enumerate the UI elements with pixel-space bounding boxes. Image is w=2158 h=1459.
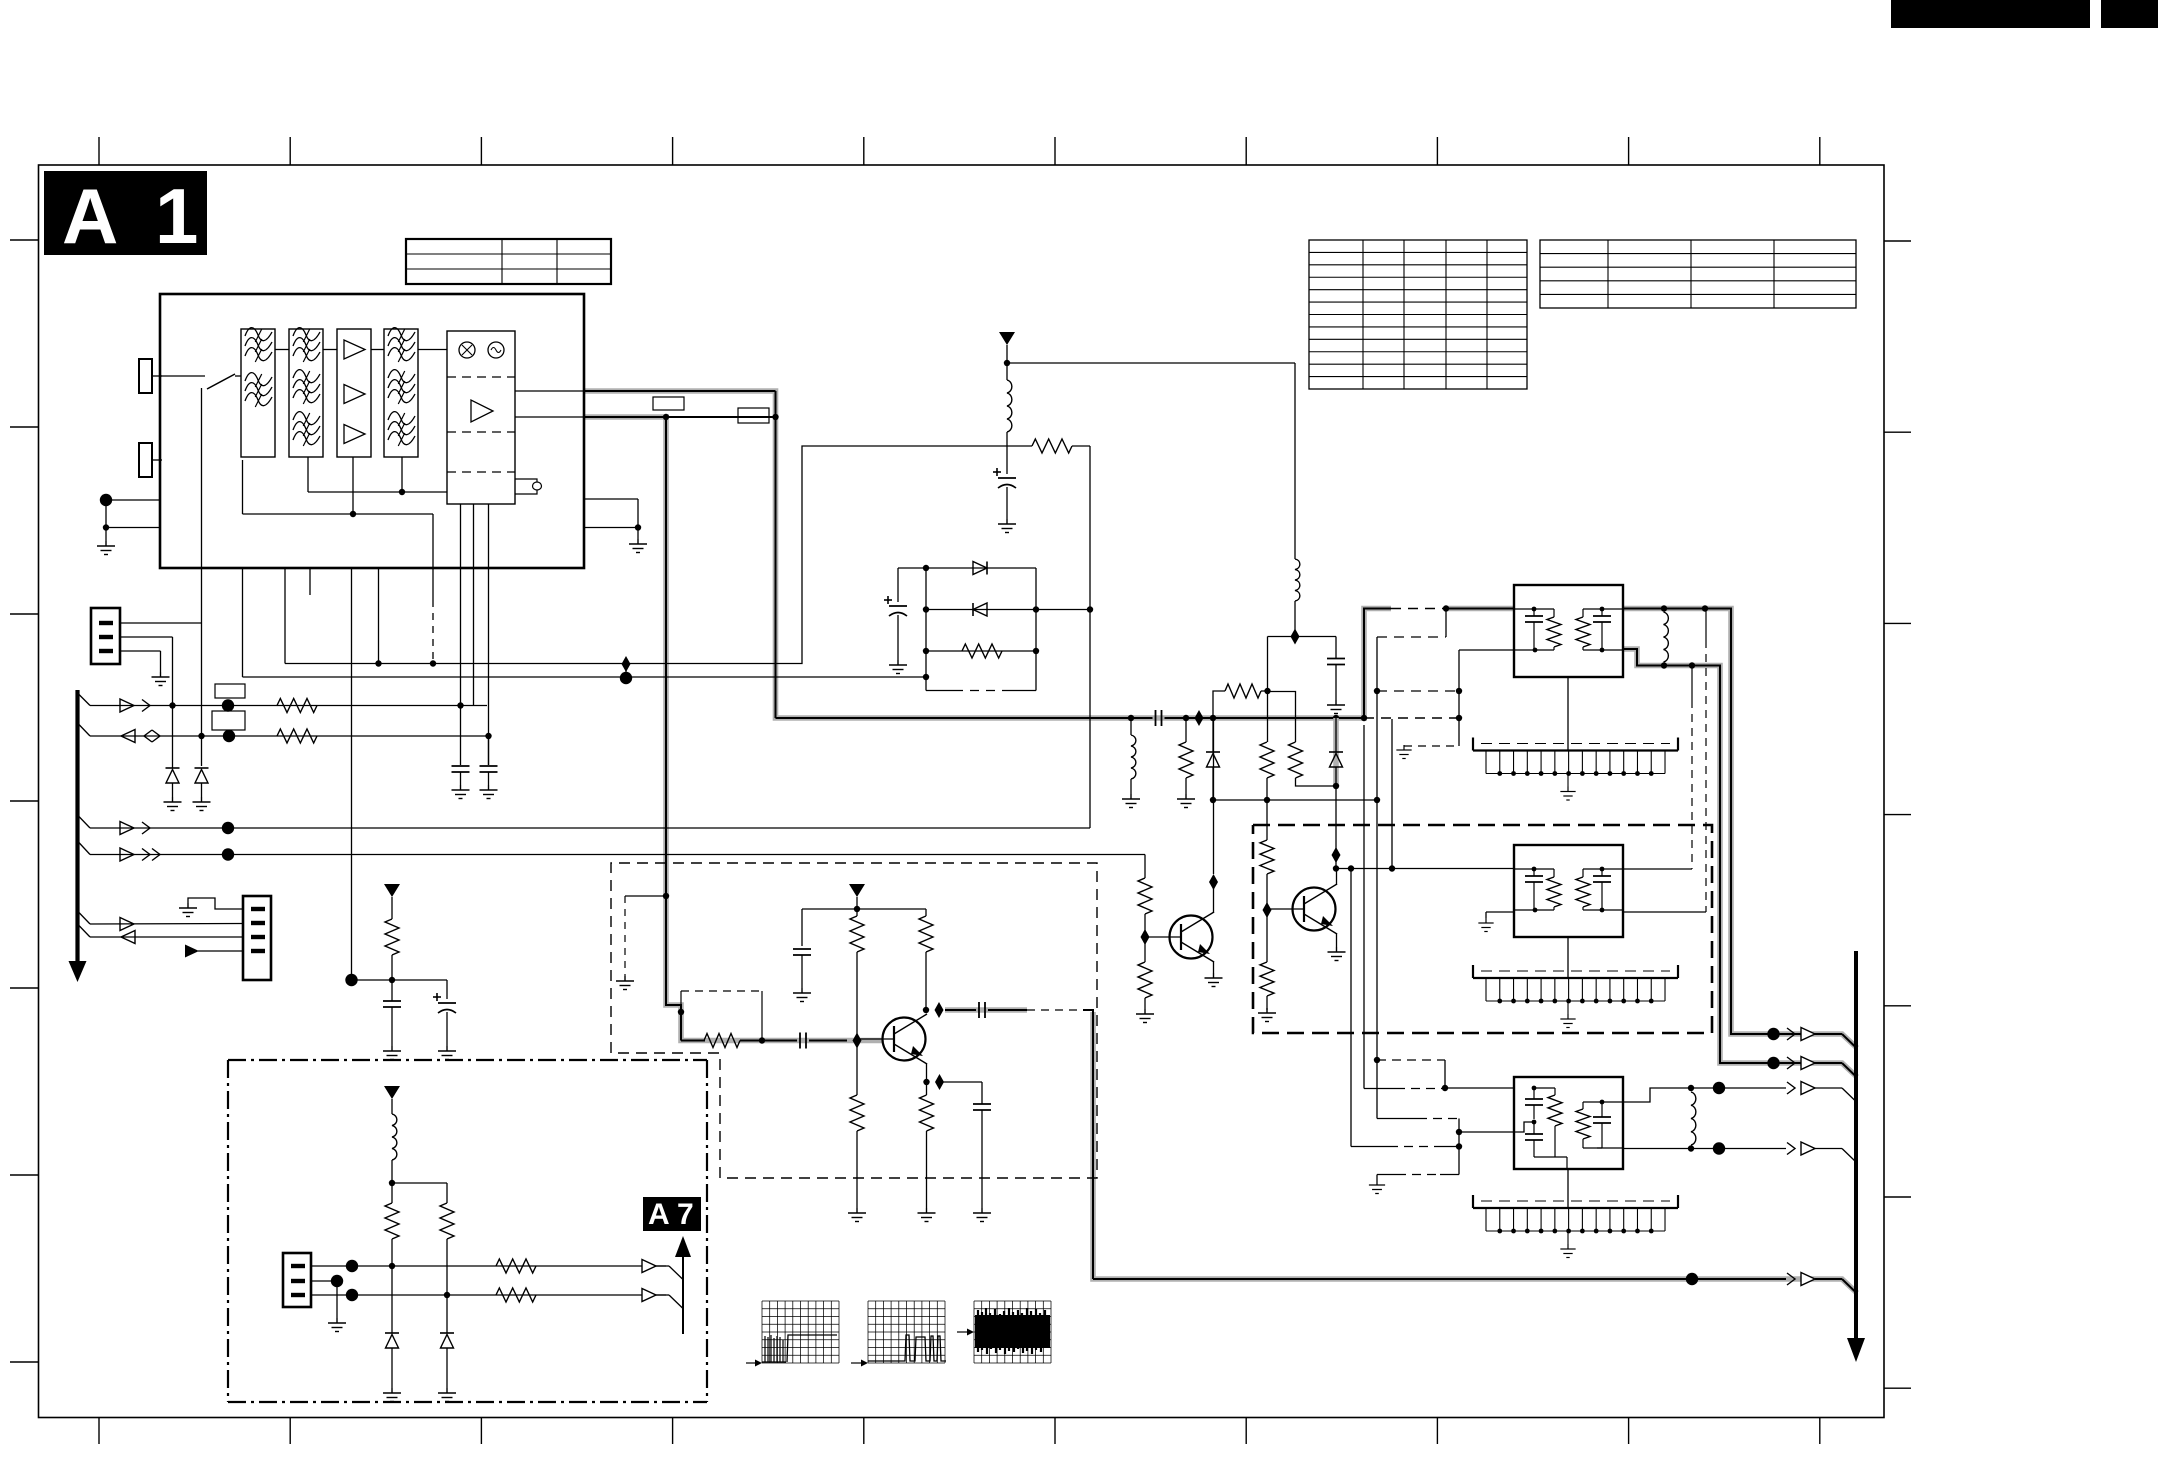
connector X2 (4-pin control)	[243, 896, 271, 980]
transistor Q1	[883, 1018, 926, 1061]
resistor R42	[1138, 962, 1152, 998]
wire band line turn	[1144, 855, 1146, 879]
ground	[383, 1388, 401, 1402]
emitter ground	[1336, 933, 1338, 947]
diode D71	[391, 1266, 393, 1333]
vertical x=1377	[1376, 637, 1378, 1119]
resistor R22 (AGC)	[1007, 445, 1032, 447]
scope graph 1	[762, 1301, 839, 1363]
wire line A (AGC feed)	[285, 446, 1007, 664]
collector wire	[1213, 882, 1215, 913]
output line 1 (y=1034)	[1767, 1028, 1779, 1040]
mixer/oscillator block U1b	[447, 331, 515, 504]
wire drop to R21	[1268, 692, 1296, 743]
connector X1 (4-pin tuner supply)	[91, 608, 120, 664]
resistor R72	[440, 1203, 454, 1239]
wire dashed link y=691	[1377, 690, 1459, 692]
ground	[973, 1208, 991, 1222]
wire AGC gray line down	[666, 417, 681, 1041]
wire line B	[243, 676, 927, 678]
resistor R31	[1185, 718, 1187, 742]
ground	[1327, 700, 1345, 714]
pin row IC1	[1567, 677, 1569, 751]
diode D21	[898, 567, 1036, 569]
ground	[179, 903, 197, 917]
SAW filter block FL1	[1514, 585, 1623, 677]
resistor R51	[704, 1034, 740, 1048]
resistor R55	[920, 1095, 934, 1131]
signal line AFC (y=736)	[78, 723, 91, 736]
wire main IF signal path (gray highlight)	[584, 391, 1391, 718]
FL2 left return to ground	[1486, 911, 1514, 913]
A7 arrow up	[675, 1236, 691, 1257]
wire collector line to SAW2	[1336, 868, 1514, 870]
oscillator symbol	[488, 342, 504, 358]
stair link 4	[1350, 869, 1352, 1147]
collector node	[923, 1007, 929, 1013]
table small top-left	[406, 239, 611, 284]
ground	[1136, 1009, 1154, 1023]
left signal bus with arrow	[75, 690, 79, 966]
resistor R11	[277, 699, 317, 713]
ground	[328, 1318, 346, 1332]
resistor R43	[1266, 800, 1268, 840]
top/bottom tick marks	[98, 137, 100, 165]
wire AGC divider vertical	[1089, 446, 1091, 828]
wire switch to AGC vertical	[201, 388, 203, 766]
ground	[998, 519, 1016, 533]
audio ground pin	[311, 1280, 337, 1282]
transistor Q3	[1293, 888, 1336, 931]
electrolytic C14	[446, 980, 448, 999]
SAW1 output staircase (black core)	[1624, 649, 1842, 1063]
ground	[616, 976, 634, 990]
gray line branch ground	[625, 895, 666, 897]
electrolytic C22	[1006, 446, 1008, 474]
main IF line	[776, 717, 1153, 719]
label box L2	[738, 408, 769, 423]
wire from pin x=351	[352, 979, 393, 981]
resistor R44	[1260, 962, 1274, 996]
ground	[1177, 794, 1195, 808]
supply rail	[802, 908, 926, 910]
pin row IC3	[1567, 1169, 1569, 1208]
resistor R74	[496, 1288, 536, 1302]
svg-text:7: 7	[677, 1198, 694, 1231]
diode D32	[1333, 718, 1339, 786]
main line dashed continuation	[1364, 717, 1459, 719]
wire bias rail y=800	[1213, 799, 1377, 801]
power arrow +VA	[384, 1086, 400, 1099]
emitter to ground	[1213, 961, 1215, 973]
arrow into graph 3	[957, 1331, 969, 1333]
decoupling cap C52	[801, 909, 803, 946]
resistor R13	[385, 919, 399, 955]
resistor R33	[1267, 691, 1269, 742]
antenna connector J1	[139, 359, 152, 393]
ground	[383, 1046, 401, 1060]
wire node bar y=636.5	[1268, 636, 1337, 638]
dashed ground stub	[1404, 745, 1459, 747]
ground	[1122, 794, 1140, 808]
crystal X1	[515, 479, 537, 482]
ground	[164, 797, 182, 811]
inductor L71	[392, 1114, 397, 1160]
signal line I2C SCL (y=924)	[78, 911, 91, 924]
resistor R71	[385, 1203, 399, 1239]
scope graph 3 (noise)	[974, 1301, 1051, 1363]
ground	[438, 1046, 456, 1060]
filled direction arrow	[198, 950, 243, 952]
power arrow +Vt	[384, 884, 400, 897]
decoupling cap C12	[488, 736, 490, 765]
signal line I2C SDA (y=937)	[78, 924, 91, 937]
tuner bottom pin wires	[242, 568, 244, 677]
emitter bypass C53	[940, 1081, 983, 1083]
resistor R73	[496, 1259, 536, 1273]
black header bar corner	[2101, 0, 2158, 28]
svg-text:1: 1	[155, 172, 198, 260]
power arrow +V5	[849, 884, 865, 897]
table large left (parts grid)	[1309, 240, 1527, 389]
ground	[1396, 745, 1411, 759]
ground	[152, 672, 170, 686]
transistor Q2	[1170, 916, 1213, 959]
stair link 1	[1377, 1059, 1445, 1061]
ground	[1328, 947, 1346, 961]
input switch	[160, 375, 205, 377]
diode D72	[446, 1295, 448, 1333]
protection diode D1	[172, 637, 174, 768]
signal line band select (y=854.5)	[78, 841, 91, 855]
stair link 2	[1363, 725, 1365, 1089]
tuner block U1 outline	[160, 294, 584, 568]
svg-text:A: A	[648, 1198, 670, 1231]
tuner IF output 1	[515, 390, 584, 392]
signal line AGC (y=705)	[78, 693, 91, 706]
electrolytic C23	[897, 568, 899, 602]
signal line tuning voltage (y=828)	[78, 815, 91, 828]
protection diode D2	[195, 767, 209, 769]
big dashed box (module outline)	[1253, 825, 1712, 1033]
ground	[438, 1388, 456, 1402]
mixer symbol	[459, 342, 475, 358]
ground	[1205, 973, 1223, 987]
diode D31	[1212, 718, 1214, 752]
emitter node	[926, 1063, 928, 1095]
series cap C31	[1155, 710, 1157, 726]
wire dashed link y=637	[1377, 636, 1446, 638]
resistor R54	[925, 909, 927, 916]
capacitor C13	[391, 980, 393, 1001]
decoupling cap C11	[452, 765, 470, 767]
SAW filter block FL2	[1514, 845, 1623, 937]
inductor L31	[1130, 718, 1132, 735]
ground	[97, 541, 115, 555]
pin row IC2	[1567, 937, 1569, 978]
ground	[889, 660, 907, 674]
ground	[193, 797, 211, 811]
wire x=1392	[1391, 719, 1393, 869]
ground	[452, 785, 470, 799]
right bus with arrow	[1854, 951, 1858, 1341]
ground	[480, 785, 498, 799]
connector X3	[283, 1253, 311, 1307]
A7 reference label	[643, 1197, 701, 1231]
bypass link (dashed)	[678, 1009, 684, 1015]
ground	[1258, 1008, 1276, 1022]
tuner aux outputs to ground	[584, 498, 638, 500]
collector node	[1336, 869, 1338, 886]
vertical x=1459 (SAW1 return)	[1458, 650, 1460, 746]
if amplifier triangle	[471, 400, 493, 422]
label box L4	[212, 711, 245, 730]
FL3 output bottom	[1623, 1148, 1786, 1150]
AGC detector network box	[925, 568, 927, 691]
resistor R32 above line	[1213, 691, 1225, 718]
resistor R12	[277, 729, 317, 743]
audio module box (dash-dot)	[228, 1059, 707, 1061]
svg-text:A: A	[62, 172, 118, 260]
label box L3	[215, 684, 245, 698]
inductor L62	[1691, 1092, 1696, 1145]
audio line 2	[311, 1294, 666, 1296]
wire output down and right (gray path)	[1083, 1010, 1093, 1279]
antenna connector J2	[139, 443, 152, 477]
decoupling cap C21	[1335, 637, 1337, 659]
black header bar right	[1891, 0, 2090, 28]
diode D22	[926, 609, 1090, 611]
filter block F1	[241, 329, 275, 457]
node diamond	[1291, 629, 1300, 645]
wire F1-F2-A1-F3 chain	[275, 349, 289, 351]
filter block F3	[384, 329, 418, 457]
series cap C51	[799, 1033, 801, 1049]
inductor L61	[1664, 612, 1669, 662]
collector output coupling C54	[945, 1009, 976, 1011]
amplifier block A1	[337, 329, 371, 457]
wire to R72	[392, 1182, 447, 1184]
ground	[629, 539, 647, 553]
inductor L21	[1294, 363, 1296, 559]
wire collector feed x=1336	[1335, 786, 1337, 869]
ground	[1478, 918, 1493, 932]
main line junctions	[1128, 715, 1134, 721]
FL2 right couplings	[1623, 868, 1692, 870]
resistor R53	[850, 1095, 864, 1131]
scope graph 2	[868, 1301, 945, 1363]
tuner left bias wires	[106, 499, 160, 501]
ground	[918, 1208, 936, 1222]
shield box (dashed) around IF preamp	[611, 863, 1097, 1178]
audio line 1	[311, 1265, 666, 1267]
label box L1	[653, 397, 684, 410]
A1 page label	[44, 171, 207, 255]
resistor R21 below main line	[1289, 742, 1303, 778]
resistor R23	[926, 650, 1036, 652]
table right (version grid)	[1540, 240, 1856, 308]
arrow into graph 1	[746, 1362, 757, 1364]
resistor R41	[1138, 878, 1152, 914]
tuner internal bottom wiring	[307, 457, 309, 492]
tuner IF output 2	[515, 416, 584, 418]
filter block F2	[289, 329, 323, 457]
ground	[1369, 1180, 1385, 1194]
ground	[848, 1208, 866, 1222]
dashed vertical x=1692	[1691, 666, 1693, 701]
inductor L22	[1007, 380, 1012, 432]
arrow into graph 2	[851, 1362, 863, 1364]
stair link 3	[1377, 1118, 1418, 1120]
ground return stair	[1377, 1174, 1397, 1176]
node junction column x=626	[625, 664, 627, 678]
FL3 output top	[1623, 1088, 1691, 1102]
resistor R52	[856, 909, 858, 916]
main line elbow up to SAW1	[1364, 609, 1391, 719]
ground	[793, 988, 811, 1002]
SAW filter block FL3	[1445, 1087, 1514, 1089]
power arrow +VS	[999, 332, 1015, 345]
border frame	[39, 165, 1885, 1418]
left/right tick marks	[10, 239, 39, 241]
dashed vertical x=1706	[1705, 609, 1707, 641]
wire supply to right	[1007, 362, 1295, 364]
output line 2 (y=1063)	[1767, 1057, 1779, 1069]
base feed line	[681, 1040, 705, 1042]
wire pin1 to ground	[188, 898, 243, 909]
